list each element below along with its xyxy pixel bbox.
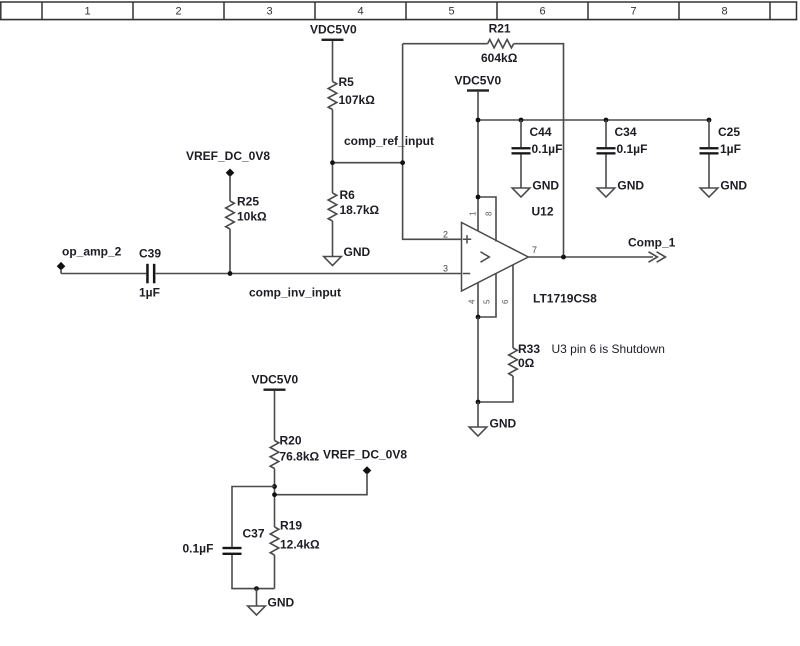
pin 1 stub: [477, 197, 479, 232]
svg-text:8: 8: [485, 211, 494, 216]
wire rail down to pins 1/8: [477, 120, 479, 197]
node comp_ref_input: [330, 134, 434, 165]
svg-text:R21: R21: [489, 22, 511, 36]
resistor R6 18.7k: [328, 188, 379, 221]
wire VDC5V0 to R20: [274, 391, 276, 441]
svg-text:comp_inv_input: comp_inv_input: [249, 286, 341, 300]
wire comp_ref node to R21 left / vertical to pin 2: [403, 44, 462, 240]
svg-text:6: 6: [501, 299, 510, 304]
svg-text:0Ω: 0Ω: [518, 356, 535, 370]
node rail junctions: [476, 118, 481, 123]
resistor R33 0 ohm: [509, 342, 541, 376]
svg-text:7: 7: [532, 245, 537, 255]
wire output pin 7 to off-page: [528, 256, 653, 258]
wire pins 4/5 down to ground junction: [477, 317, 479, 402]
svg-text:2: 2: [443, 229, 448, 239]
svg-text:3: 3: [266, 6, 272, 18]
svg-text:GND: GND: [720, 179, 747, 193]
node Comp_1 off-page connector: [628, 235, 676, 262]
wire C39 to pin 3 (comp_inv_input): [156, 273, 462, 275]
svg-text:VDC5V0: VDC5V0: [251, 373, 298, 387]
svg-text:GND: GND: [344, 245, 371, 259]
ground (R6): [324, 245, 371, 266]
svg-text:6: 6: [539, 6, 545, 18]
svg-text:R25: R25: [237, 194, 259, 208]
capacitor C37 0.1uF: [183, 527, 265, 556]
node op_amp_2 off-page connector: [57, 245, 122, 274]
wire R5 to R6 through comp_ref junction: [332, 110, 334, 194]
svg-text:1: 1: [469, 211, 478, 216]
svg-text:GND: GND: [268, 596, 295, 610]
border ruler strip: [0, 2, 797, 20]
svg-text:op_amp_2: op_amp_2: [62, 245, 122, 259]
pin 8 stub: [478, 197, 496, 242]
resistor R25 10k: [226, 194, 267, 229]
svg-text:3: 3: [443, 264, 448, 274]
wire divider tap to C37: [232, 487, 275, 547]
power VDC5V0 (comparator rail): [454, 74, 501, 92]
resistor R5 107k: [328, 75, 375, 110]
svg-text:R33: R33: [518, 342, 540, 356]
svg-text:0.1µF: 0.1µF: [617, 142, 648, 156]
ground (C34): [597, 179, 644, 197]
svg-text:comp_ref_input: comp_ref_input: [344, 134, 434, 148]
svg-text:C25: C25: [718, 125, 740, 139]
node VREF_DC_0V8 (R25): [186, 149, 270, 201]
svg-text:U12: U12: [532, 205, 554, 219]
capacitor C39 1uF: [139, 247, 161, 300]
svg-text:VREF_DC_0V8: VREF_DC_0V8: [186, 149, 270, 163]
svg-text:4: 4: [357, 6, 363, 18]
wire VDC5V0 to R5: [332, 41, 334, 82]
svg-text:GND: GND: [617, 179, 644, 193]
svg-text:VREF_DC_0V8: VREF_DC_0V8: [323, 448, 407, 462]
svg-text:Comp_1: Comp_1: [628, 235, 676, 249]
op-amp U12 LT1719CS8 comparator: [462, 205, 598, 306]
svg-text:10kΩ: 10kΩ: [237, 209, 267, 223]
svg-text:12.4kΩ: 12.4kΩ: [280, 538, 320, 552]
svg-text:1µF: 1µF: [720, 142, 741, 156]
svg-text:1: 1: [84, 6, 90, 18]
wire V+ rail: [478, 119, 709, 121]
svg-text:0.1µF: 0.1µF: [183, 542, 214, 556]
node VREF_DC_0V8 (divider tap): [275, 448, 408, 495]
wire VDC5V0 stem to rail: [477, 92, 479, 120]
svg-text:R5: R5: [339, 75, 355, 89]
ground (C25): [700, 179, 747, 197]
svg-text:5: 5: [448, 6, 454, 18]
resistor R19 12.4k: [270, 519, 320, 555]
svg-text:2: 2: [175, 6, 181, 18]
svg-text:GND: GND: [532, 179, 559, 193]
svg-text:U3 pin 6 is Shutdown: U3 pin 6 is Shutdown: [552, 342, 665, 356]
wire R6 to ground: [332, 221, 334, 257]
capacitor C34: [597, 120, 648, 188]
svg-text:1µF: 1µF: [139, 286, 160, 300]
pin 4 stub: [477, 283, 479, 318]
power VDC5V0 (divider): [251, 373, 298, 391]
pin 5 stub: [478, 273, 496, 317]
wire R33 to ground junction: [478, 376, 513, 402]
wire R20 to R19: [274, 469, 276, 528]
power VDC5V0 (R5 branch): [310, 23, 357, 42]
svg-text:R6: R6: [340, 188, 356, 202]
resistor R21: [481, 22, 518, 65]
svg-text:18.7kΩ: 18.7kΩ: [340, 203, 380, 217]
wire R21 top left segment: [403, 43, 488, 45]
wire R25 to comp_inv_input: [229, 229, 231, 274]
svg-text:C44: C44: [530, 125, 552, 139]
capacitor C25: [700, 120, 741, 188]
ground (divider): [248, 589, 295, 615]
svg-text:7: 7: [630, 6, 636, 18]
svg-text:LT1719CS8: LT1719CS8: [533, 292, 597, 306]
svg-text:C34: C34: [615, 125, 637, 139]
pin 6 stub (shutdown): [512, 265, 514, 349]
svg-text:4: 4: [468, 299, 477, 304]
svg-text:107kΩ: 107kΩ: [339, 93, 376, 107]
ground (C44): [512, 179, 559, 197]
svg-text:R19: R19: [280, 519, 302, 533]
svg-text:VDC5V0: VDC5V0: [454, 74, 501, 88]
wire R21 right to feedback vertical down to output: [514, 44, 564, 257]
ground (comparator): [469, 402, 516, 436]
wire op_amp_2 to C39: [61, 273, 146, 275]
svg-text:VDC5V0: VDC5V0: [310, 23, 357, 37]
wire C37 bottom / R19 bottom to ground junction: [232, 555, 275, 589]
svg-text:C37: C37: [243, 527, 265, 541]
svg-text:5: 5: [483, 299, 492, 304]
svg-text:C39: C39: [139, 247, 161, 261]
capacitor C44: [512, 120, 563, 188]
svg-text:76.8kΩ: 76.8kΩ: [280, 450, 320, 464]
svg-text:GND: GND: [490, 416, 517, 430]
svg-text:0.1µF: 0.1µF: [532, 142, 563, 156]
svg-text:R20: R20: [280, 434, 302, 448]
svg-text:8: 8: [721, 6, 727, 18]
svg-text:604kΩ: 604kΩ: [481, 51, 518, 65]
resistor R20 76.8k: [270, 434, 319, 469]
